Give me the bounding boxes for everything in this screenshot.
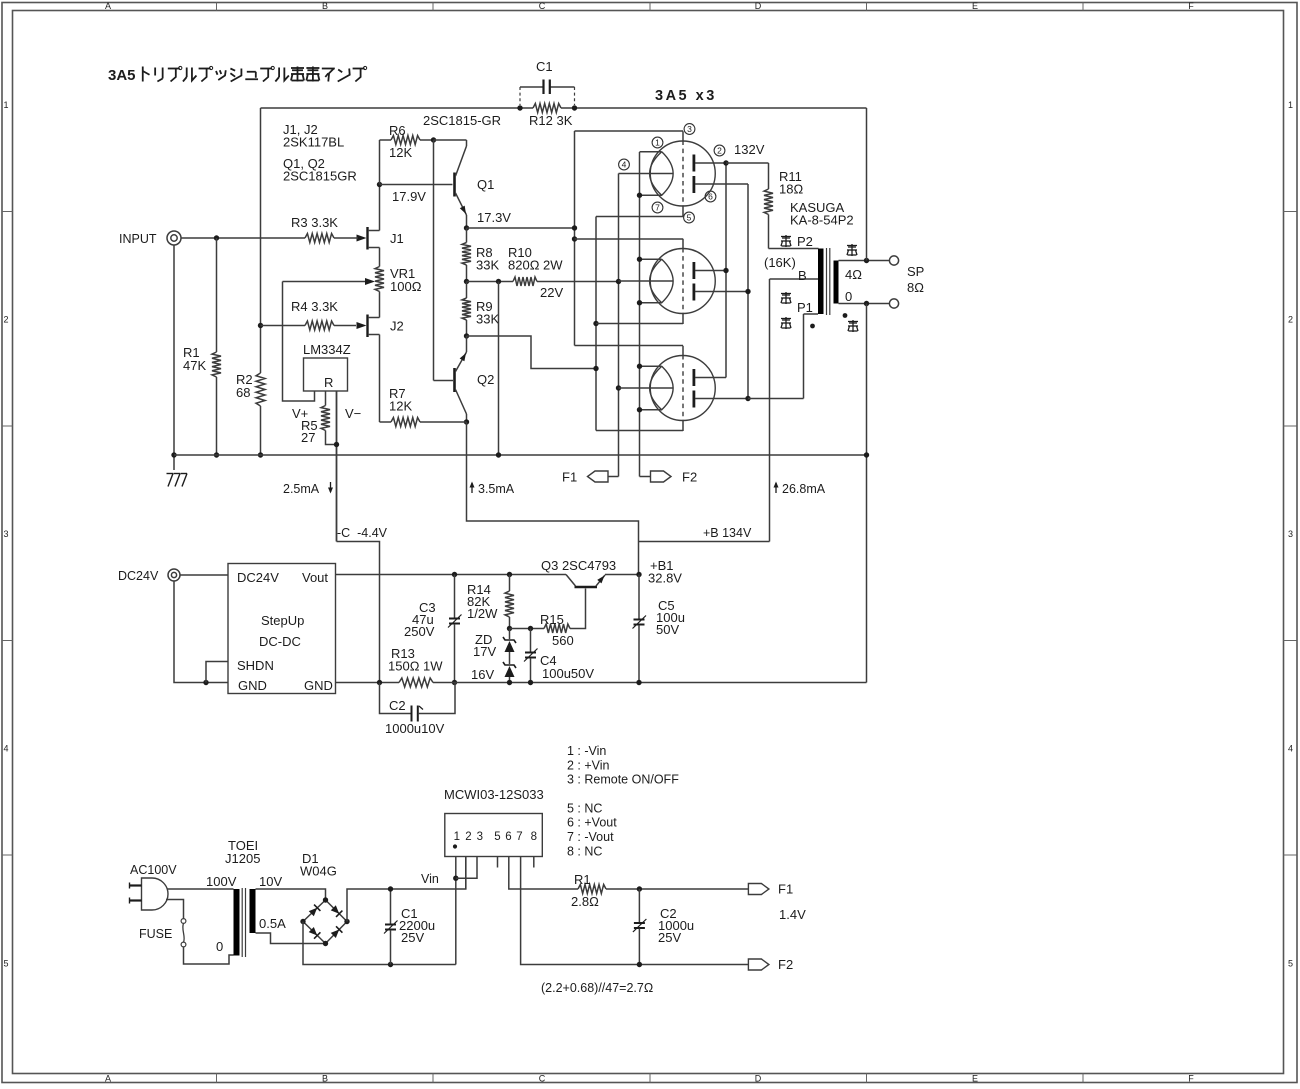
tube V1 3A5 (650, 141, 715, 206)
resistor R8 (466, 228, 468, 243)
svg-text:2.8Ω: 2.8Ω (571, 894, 599, 909)
capacitor C3 (454, 575, 456, 619)
wire fuse to primary 0 tap (184, 947, 234, 964)
wire VR1 wiper to LM334 V+ (283, 282, 315, 402)
svg-text:-C -4.4V: -C -4.4V (337, 526, 388, 540)
node Q2 collector / R7 (464, 419, 469, 424)
svg-text:C: C (539, 1074, 546, 1084)
wire Vout line (336, 574, 567, 576)
wire Q2 emitter to G2 bus (467, 336, 597, 369)
svg-text:17V: 17V (473, 644, 496, 659)
svg-text:1: 1 (1288, 100, 1293, 110)
resistor R9 (466, 282, 468, 299)
svg-text:33K: 33K (476, 258, 499, 273)
svg-text:1: 1 (655, 137, 660, 147)
IC LM334Z (304, 358, 348, 391)
svg-text:18Ω: 18Ω (779, 182, 803, 197)
svg-text:6: 6 (708, 191, 713, 201)
svg-text:P1: P1 (797, 300, 813, 315)
connector F1 (psu) (748, 884, 769, 895)
svg-text:Q2: Q2 (477, 372, 494, 387)
module pin1 leg to -Vin rail (455, 857, 457, 965)
tube1 pin number labels (652, 137, 663, 148)
svg-text:0.5A: 0.5A (259, 916, 286, 931)
resistor R3 (305, 234, 334, 243)
svg-text:3: 3 (687, 124, 692, 134)
transistor Q1 (453, 173, 456, 197)
wire tube1 grid2 (pin5) (596, 216, 683, 218)
svg-text:5: 5 (1288, 959, 1293, 969)
svg-text:E: E (972, 1074, 978, 1084)
JFET J1 (357, 235, 367, 242)
svg-text:B: B (322, 1074, 328, 1084)
wire secondary 4 ohm tap (839, 260, 890, 262)
resistor R1 (216, 238, 218, 352)
svg-text:16V: 16V (471, 667, 494, 682)
wire pin3 remote tie (456, 857, 477, 879)
capacitor C2 (filament) (638, 889, 640, 923)
AC plug (142, 878, 169, 910)
svg-text:D: D (755, 1, 762, 11)
svg-text:10V: 10V (259, 874, 282, 889)
svg-text:4: 4 (1288, 744, 1293, 754)
svg-text:1 : -Vin: 1 : -Vin (567, 744, 606, 758)
wire tube3 grid2 (pin5) (596, 430, 683, 432)
svg-text:560: 560 (552, 633, 574, 648)
svg-text:3: 3 (1288, 529, 1293, 539)
resistor R15 (510, 628, 545, 630)
tube V3 3A5 (650, 356, 715, 421)
svg-text:2.5mA: 2.5mA (283, 482, 320, 496)
svg-text:J2: J2 (390, 319, 404, 334)
svg-text:F1: F1 (778, 882, 793, 897)
node +B1 (636, 572, 641, 577)
svg-text:4: 4 (3, 744, 8, 754)
module pin8 stub (533, 857, 535, 868)
wire F1 filament center-tap bus (618, 174, 620, 477)
capacitor C5 (638, 575, 640, 620)
module pin6 leg +Vout (509, 857, 578, 890)
node J1 drain 17.9V (377, 182, 382, 187)
svg-text:6: 6 (505, 831, 511, 843)
svg-text:100u50V: 100u50V (542, 666, 594, 681)
svg-text:SP: SP (907, 264, 924, 279)
connector F2 (psu) (748, 959, 769, 970)
wire secondary 0 tap (839, 303, 890, 305)
svg-text:8 : NC: 8 : NC (567, 844, 602, 858)
svg-text:2SK117BL: 2SK117BL (283, 135, 344, 150)
svg-text:0: 0 (845, 289, 852, 304)
resistor R12 (533, 104, 561, 113)
resistor R1 (filament supply) (578, 885, 606, 894)
transformer B tap wire to +B (770, 278, 819, 280)
svg-text:2: 2 (465, 831, 471, 843)
svg-text:R: R (324, 375, 333, 390)
tube V2 3A5 (650, 249, 715, 314)
svg-text:J1: J1 (390, 231, 404, 246)
output transformer T1 secondary (834, 261, 839, 304)
wire G1 bus (574, 131, 576, 346)
svg-text:C2: C2 (389, 698, 406, 713)
svg-text:820Ω 2W: 820Ω 2W (508, 258, 563, 273)
svg-text:50V: 50V (656, 622, 679, 637)
svg-text:R12 3K: R12 3K (529, 113, 573, 128)
label up 3.5mA (471, 483, 473, 493)
transistor Q2 (453, 368, 456, 392)
svg-text:68: 68 (236, 385, 250, 400)
svg-text:F1: F1 (562, 470, 577, 485)
svg-text:12K: 12K (389, 399, 412, 414)
svg-text:17.9V: 17.9V (392, 189, 426, 204)
svg-text:DC-DC: DC-DC (259, 634, 301, 649)
svg-text:100V: 100V (206, 874, 237, 889)
zener ZD 17V (509, 629, 511, 640)
resistor R5 (325, 391, 327, 406)
svg-text:W04G: W04G (300, 864, 337, 879)
potentiometer VR1 (379, 266, 381, 268)
svg-text:2: 2 (717, 145, 722, 155)
svg-text:25V: 25V (658, 930, 681, 945)
svg-text:7 : -Vout: 7 : -Vout (567, 830, 614, 844)
svg-text:(16K): (16K) (764, 255, 796, 270)
wire tube2 grid1 (pin3) (575, 238, 684, 240)
wire secondary 0 to bridge (256, 933, 326, 944)
svg-text:5 : NC: 5 : NC (567, 801, 602, 815)
svg-text:17.3V: 17.3V (477, 210, 511, 225)
wire SHDN tie (206, 662, 228, 683)
svg-text:2: 2 (1288, 315, 1293, 325)
wire plate bus pin2 (725, 163, 727, 378)
ground symbol (167, 473, 174, 475)
module pin2 leg (465, 857, 467, 890)
svg-text:1.4V: 1.4V (779, 907, 806, 922)
ground rail (174, 454, 867, 456)
SP output terminals (889, 256, 898, 265)
wire -C -4.4V (337, 542, 380, 683)
svg-text:A: A (105, 1, 111, 11)
resistor R14 (509, 575, 511, 592)
svg-text:D: D (755, 1074, 762, 1084)
svg-text:Vin: Vin (421, 872, 439, 886)
wire plate pin2 to R11/132V (726, 162, 769, 164)
wire input jack to ground (173, 245, 175, 470)
JFET J2 (357, 322, 367, 329)
resistor R6 (379, 140, 381, 185)
svg-text:Q1: Q1 (477, 177, 494, 192)
svg-text:J1205: J1205 (225, 851, 260, 866)
svg-text:33K: 33K (476, 312, 499, 327)
svg-text:2: 2 (3, 315, 8, 325)
svg-text:B: B (798, 268, 807, 283)
output transformer T1 primary (769, 248, 819, 250)
svg-text:132V: 132V (734, 142, 765, 157)
transformer P1 wire (804, 313, 819, 315)
svg-text:A: A (105, 1074, 111, 1084)
wire secondary 10V to bridge (256, 889, 326, 900)
svg-text:Q3 2SC4793: Q3 2SC4793 (541, 558, 616, 573)
capacitor C4 (530, 629, 532, 653)
wire G2 bus (595, 217, 597, 431)
svg-text:8: 8 (531, 831, 537, 843)
wire tube2 grid2 (pin5) (596, 323, 683, 325)
svg-text:+B 134V: +B 134V (703, 526, 752, 540)
svg-text:GND: GND (238, 678, 267, 693)
svg-text:F: F (1188, 1, 1194, 11)
svg-text:DC24V: DC24V (237, 570, 279, 585)
svg-text:MCWI03-12S033: MCWI03-12S033 (444, 787, 544, 802)
svg-text:R1: R1 (574, 872, 591, 887)
PSU ground rail (336, 682, 400, 684)
svg-text:DC24V: DC24V (118, 569, 159, 583)
svg-text:1/2W: 1/2W (467, 606, 498, 621)
svg-text:12K: 12K (389, 145, 412, 160)
svg-text:V−: V− (345, 406, 361, 421)
svg-text:GND: GND (304, 678, 333, 693)
svg-text:100Ω: 100Ω (390, 279, 422, 294)
wire bridge minus to rail (303, 922, 456, 965)
resistor R11 (768, 163, 770, 189)
svg-text:150Ω 1W: 150Ω 1W (388, 659, 443, 674)
svg-text:3: 3 (3, 529, 8, 539)
svg-text:1000u10V: 1000u10V (385, 721, 445, 736)
svg-text:26.8mA: 26.8mA (782, 482, 826, 496)
StepUp DC-DC module (228, 564, 336, 694)
svg-text:E: E (972, 1, 978, 11)
svg-text:LM334Z: LM334Z (303, 342, 351, 357)
feedback top rail wire (261, 107, 534, 109)
svg-text:25V: 25V (401, 930, 424, 945)
capacitor C2 (psu) (380, 683, 412, 714)
node Q1 emitter 17.3V (464, 225, 469, 230)
wire DC24V jack negative (174, 581, 228, 683)
svg-text:C: C (539, 1, 546, 11)
svg-text:5: 5 (3, 959, 8, 969)
svg-text:8Ω: 8Ω (907, 280, 924, 295)
svg-text:F2: F2 (682, 470, 697, 485)
svg-text:KA-8-54P2: KA-8-54P2 (790, 213, 854, 228)
svg-text:3A5 x3: 3A5 x3 (655, 88, 717, 104)
wire R6 to Q1 collector (434, 139, 467, 141)
svg-text:F: F (1188, 1074, 1194, 1084)
svg-text:5: 5 (687, 212, 692, 222)
wire Q2 collector to +B1 (467, 422, 639, 575)
wire F2 filament bus (639, 152, 641, 477)
wire plate bus pin6 (747, 184, 749, 399)
svg-text:7: 7 (516, 831, 522, 843)
label up 26.8mA (775, 483, 777, 493)
svg-text:0: 0 (216, 939, 223, 954)
node R6/Q2 base junction (431, 137, 436, 142)
module pin5 stub (497, 857, 499, 868)
wire J1 drain to Q1 base (380, 184, 453, 186)
wire LM334 V- to -C rail (336, 391, 338, 542)
transformer labels (781, 236, 791, 238)
wire bridge plus to Vin (347, 857, 466, 922)
wire tube1 grid1 (pin3) (575, 130, 684, 132)
connector F1 (amp) (608, 476, 619, 478)
resistor R7 (380, 421, 392, 423)
module pin7 leg -Vout (521, 857, 749, 965)
svg-text:AC100V: AC100V (130, 863, 177, 877)
wire left feedback vertical (260, 108, 262, 373)
node R4/R2 feedback junction (258, 323, 263, 328)
svg-text:1: 1 (3, 100, 8, 110)
connector F2 (amp) (640, 476, 651, 478)
svg-text:3A5: 3A5 (108, 67, 136, 84)
svg-text:R6: R6 (389, 123, 406, 138)
resistor R13 (399, 678, 433, 687)
resistor R2 (256, 373, 265, 406)
svg-text:(2.2+0.68)//47=2.7Ω: (2.2+0.68)//47=2.7Ω (541, 981, 653, 995)
svg-text:47K: 47K (183, 358, 206, 373)
svg-text:3: 3 (477, 831, 483, 843)
svg-text:R4 3.3K: R4 3.3K (291, 299, 338, 314)
wire +B 134V horizontal (639, 541, 770, 543)
svg-text:3.5mA: 3.5mA (478, 482, 515, 496)
svg-text:5: 5 (494, 831, 500, 843)
wire Q2 base vertical (433, 140, 435, 381)
wire right feedback vertical (866, 108, 868, 261)
wire R3 to J1 gate (334, 237, 356, 239)
wire plug to fuse (166, 900, 184, 919)
node R9/Q2 emitter/G2 junction (464, 333, 469, 338)
svg-text:4: 4 (622, 159, 627, 169)
node R8/R9/R10 junction (464, 279, 469, 284)
svg-text:2SC1815-GR: 2SC1815-GR (423, 113, 501, 128)
wire plug to primary (167, 888, 233, 890)
svg-text:3 : Remote ON/OFF: 3 : Remote ON/OFF (567, 773, 679, 787)
svg-text:P2: P2 (797, 234, 813, 249)
svg-text:6 : +Vout: 6 : +Vout (567, 816, 617, 830)
zener ZD 16V (509, 652, 511, 664)
resistor R4 (261, 325, 306, 327)
svg-text:F2: F2 (778, 957, 793, 972)
svg-text:FUSE: FUSE (139, 927, 172, 941)
svg-text:StepUp: StepUp (261, 613, 304, 628)
svg-text:2 : +Vin: 2 : +Vin (567, 758, 610, 772)
capacitor C1 (dashed connection) (520, 86, 543, 88)
svg-text:7: 7 (655, 202, 660, 212)
svg-text:27: 27 (301, 430, 315, 445)
svg-text:250V: 250V (404, 624, 435, 639)
wire 22V node to ground (498, 282, 500, 456)
svg-text:Vout: Vout (302, 570, 328, 585)
svg-text:R3 3.3K: R3 3.3K (291, 215, 338, 230)
wire input to R3 (181, 237, 305, 239)
node input/R1 junction (214, 235, 219, 240)
wire tube3 pin6 to P1 (748, 398, 804, 400)
svg-text:22V: 22V (540, 285, 563, 300)
svg-text:B: B (322, 1, 328, 11)
svg-text:2SC1815GR: 2SC1815GR (283, 169, 357, 184)
svg-text:4Ω: 4Ω (845, 267, 862, 282)
svg-text:SHDN: SHDN (237, 658, 274, 673)
svg-text:1: 1 (454, 831, 460, 843)
svg-text:C1: C1 (536, 59, 553, 74)
svg-text:32.8V: 32.8V (648, 571, 682, 586)
capacitor C1 (psu bottom) (390, 889, 392, 924)
wire tube3 grid1 (pin3) (575, 345, 684, 347)
svg-text:R15: R15 (540, 612, 564, 627)
svg-text:INPUT: INPUT (119, 232, 157, 246)
wire 17.3V to G1 bus (467, 227, 575, 229)
